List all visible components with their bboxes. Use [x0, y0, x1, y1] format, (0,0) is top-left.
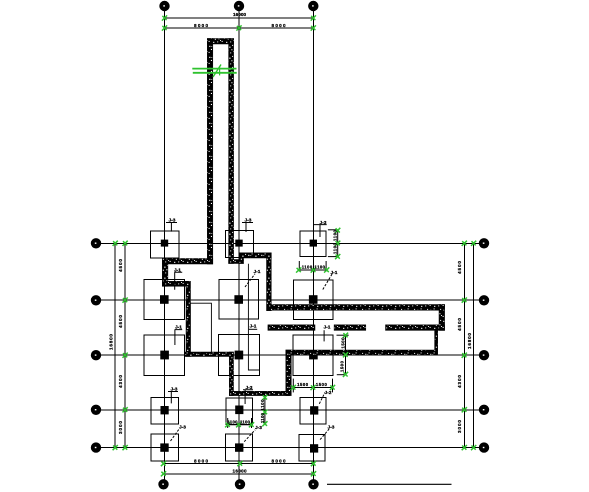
column r5c1: [160, 443, 168, 451]
column r5c2: [235, 443, 243, 451]
leader r3c2: [249, 328, 257, 330]
leader r4c1: [168, 392, 178, 404]
ticks left chain: [123, 241, 128, 246]
column r1c3: [310, 240, 317, 247]
column r5c3: [310, 444, 318, 452]
grid line col 1 (x=164.5): [164, 11, 166, 480]
ticks bottom total: [161, 471, 166, 476]
label leaders: [166, 223, 333, 442]
wall band H (vertical, x=285.8): [286, 350, 292, 396]
bubble bottom col1: [159, 480, 168, 489]
bubble left rowA: [91, 239, 100, 248]
bottom chain dim line: [164, 463, 315, 465]
leader r1c2: [242, 223, 253, 233]
leader r5c2: [244, 430, 255, 442]
footing J-3 r4c1: [151, 397, 178, 424]
wall band C (horizontal, y=281.3): [162, 281, 190, 286]
footing J-1 r2c1: [144, 280, 185, 320]
svg-text:1500: 1500: [340, 360, 345, 372]
footing J-2 r4c3: [300, 397, 326, 424]
svg-text:16000: 16000: [233, 469, 247, 474]
wall band V1 (vertical, x=267..271): [267, 253, 272, 311]
svg-text:J-3: J-3: [179, 425, 186, 431]
top chain dim line: [165, 27, 314, 29]
bubble top col3: [309, 1, 318, 10]
left total dim line: [114, 243, 116, 447]
column r1c2: [235, 240, 242, 247]
bubble right rowE: [479, 443, 488, 452]
leader r2c1: [174, 272, 182, 290]
leader r2c3: [323, 273, 333, 290]
mini dim pair at x=345.5 (rows B-C gap): [337, 335, 349, 375]
thin line x=248.4: [248, 264, 259, 370]
wall band B (vertical left, x=162.3): [162, 259, 168, 287]
svg-text:4500: 4500: [118, 259, 123, 272]
wall band R2 segment 1: [268, 325, 315, 331]
grid line row A (y=243.3): [101, 242, 480, 244]
svg-text:16800: 16800: [108, 334, 113, 350]
wall chimney left strip: [207, 39, 213, 265]
bubble left rowC: [91, 351, 100, 360]
svg-text:1100: 1100: [333, 242, 338, 254]
bubble top col1: [160, 1, 169, 10]
footing J-3 r1c1: [151, 231, 180, 258]
footing J-3 r1c3: [300, 231, 326, 257]
bubble bottom col3: [309, 480, 318, 489]
svg-text:1100: 1100: [333, 229, 338, 241]
svg-text:1100: 1100: [260, 399, 265, 411]
bubble left rowD: [91, 405, 100, 414]
column r3c3: [309, 351, 318, 360]
wall band G (horizontal, y=391.3): [229, 391, 289, 395]
svg-text:1100: 1100: [260, 412, 265, 423]
svg-text:1500: 1500: [316, 382, 328, 387]
column r1c1: [161, 240, 168, 247]
column r4c1: [161, 406, 169, 414]
svg-text:1100: 1100: [315, 264, 326, 269]
svg-text:1100: 1100: [302, 264, 313, 269]
leader r3 right: [323, 330, 325, 341]
footing J-3 r5c1: [151, 434, 179, 461]
svg-text:3000: 3000: [457, 420, 462, 433]
leader r2c2: [245, 274, 255, 287]
leader r1c3: [314, 225, 327, 237]
footing J-1 r3c3: [293, 335, 333, 376]
wall band E (horizontal, y=352): [185, 352, 234, 357]
right chain dim line: [463, 243, 465, 447]
right total boundary line: [473, 243, 475, 447]
thin offset rectangle right of wall D: [190, 303, 211, 353]
wall return R1-R2 (x=439): [439, 305, 445, 331]
ticks bottom chain: [161, 461, 166, 466]
wall band A (horizontal, y=258.5): [162, 259, 213, 265]
svg-text:1500: 1500: [340, 337, 345, 349]
svg-text:8000: 8000: [272, 458, 286, 463]
grid line col 2 (x=239): [238, 11, 240, 480]
top total dim line: [165, 17, 314, 19]
bubble left rowE: [91, 443, 100, 452]
column r2c1: [160, 295, 169, 304]
svg-text:1500: 1500: [297, 382, 309, 387]
svg-text:J-2: J-2: [325, 390, 332, 396]
bubble right rowA: [479, 239, 488, 248]
leader r5c1: [171, 429, 180, 442]
svg-text:8000: 8000: [194, 23, 208, 28]
svg-text:4500: 4500: [457, 318, 462, 331]
svg-text:J-1: J-1: [250, 324, 257, 330]
mini dim near r4c2 (vertical, x=264.9): [264, 396, 266, 425]
bubble right rowC: [479, 351, 488, 360]
column r2c3: [309, 295, 318, 304]
bubble right rowB: [479, 296, 488, 305]
wall band D (vertical, x=184.6): [186, 281, 191, 356]
leader r4c2: [243, 390, 253, 404]
mini dim below r4c2 (horizontal, y=424.8): [227, 418, 253, 428]
grid line col 3 (x=313.3): [312, 11, 314, 480]
wall band R1 (horizontal, y=304.5): [267, 305, 445, 311]
wall chimney right strip: [229, 39, 234, 264]
ticks right chain: [462, 241, 467, 246]
wall band R3 (horizontal, y=350): [286, 350, 438, 355]
bubble right rowD: [479, 405, 488, 414]
svg-text:4500: 4500: [457, 261, 462, 274]
ticks top chain: [162, 25, 167, 30]
mini dim below band G (horizontal, y=387.5): [293, 379, 332, 393]
svg-text:3000: 3000: [118, 421, 123, 434]
svg-text:4300: 4300: [118, 375, 123, 388]
wall band F (vertical, x=229.3): [229, 352, 233, 396]
column r4c3: [310, 406, 318, 414]
wall chimney top cap: [207, 39, 233, 45]
grid line row E (y=447.6): [101, 447, 480, 449]
svg-text:8000: 8000: [194, 458, 208, 463]
left chain dim line: [124, 243, 126, 447]
bottom total dim line: [164, 473, 315, 475]
wall connector jog to T: [240, 253, 244, 264]
footing J-1 r3c1: [144, 335, 184, 375]
bubble left rowB: [91, 296, 100, 305]
footing J-1 r2c2: [219, 279, 258, 319]
wall band T (top, to the right of chimney): [240, 253, 272, 258]
svg-text:4500: 4500: [118, 315, 123, 328]
wall jog band below chimney right: [229, 260, 244, 264]
leader r1c1: [166, 223, 177, 232]
column r3c1: [160, 351, 169, 360]
svg-text:1100: 1100: [228, 419, 239, 424]
svg-text:J-1: J-1: [324, 325, 331, 331]
ticks right total: [471, 241, 476, 246]
svg-text:16800: 16800: [467, 333, 472, 349]
mini dim right of footing r1c3: [328, 230, 339, 257]
column r2c2: [234, 295, 243, 304]
svg-text:4300: 4300: [457, 375, 462, 388]
wall band R2 segment 3: [386, 325, 445, 331]
svg-text:1100: 1100: [240, 419, 251, 424]
svg-text:J-3: J-3: [255, 425, 262, 431]
wall band R2 segment 2: [334, 325, 366, 331]
column r3c2: [235, 351, 244, 360]
leader r5c3: [320, 429, 329, 440]
footing J-3 r5c2: [225, 434, 252, 461]
ticks left total: [113, 241, 118, 246]
footing J-3 r5c3: [299, 434, 325, 461]
bubble bottom col2: [235, 480, 244, 489]
footing J-1 r3c2: [219, 335, 260, 376]
footing J-3 r4c2: [226, 398, 253, 425]
grid line row D (y=409.8): [101, 409, 480, 411]
bubble top col2: [234, 1, 243, 10]
column r4c2: [235, 406, 243, 415]
svg-text:8000: 8000: [272, 23, 286, 28]
wall return R2-R3 (x=434.6): [435, 330, 438, 350]
svg-text:16000: 16000: [233, 12, 246, 17]
ticks top total: [162, 15, 167, 20]
grid line row B (y=299.5): [101, 299, 480, 301]
grid line row C (y=355.2): [101, 354, 480, 356]
footing J-1 r2c3: [294, 280, 333, 320]
footing J-3 r1c2: [226, 231, 254, 258]
leader r3c1: [175, 330, 183, 345]
mini dim below footing r1c3: [299, 261, 327, 272]
title underline bottom right: [327, 483, 452, 485]
leader r4c3: [319, 392, 325, 403]
